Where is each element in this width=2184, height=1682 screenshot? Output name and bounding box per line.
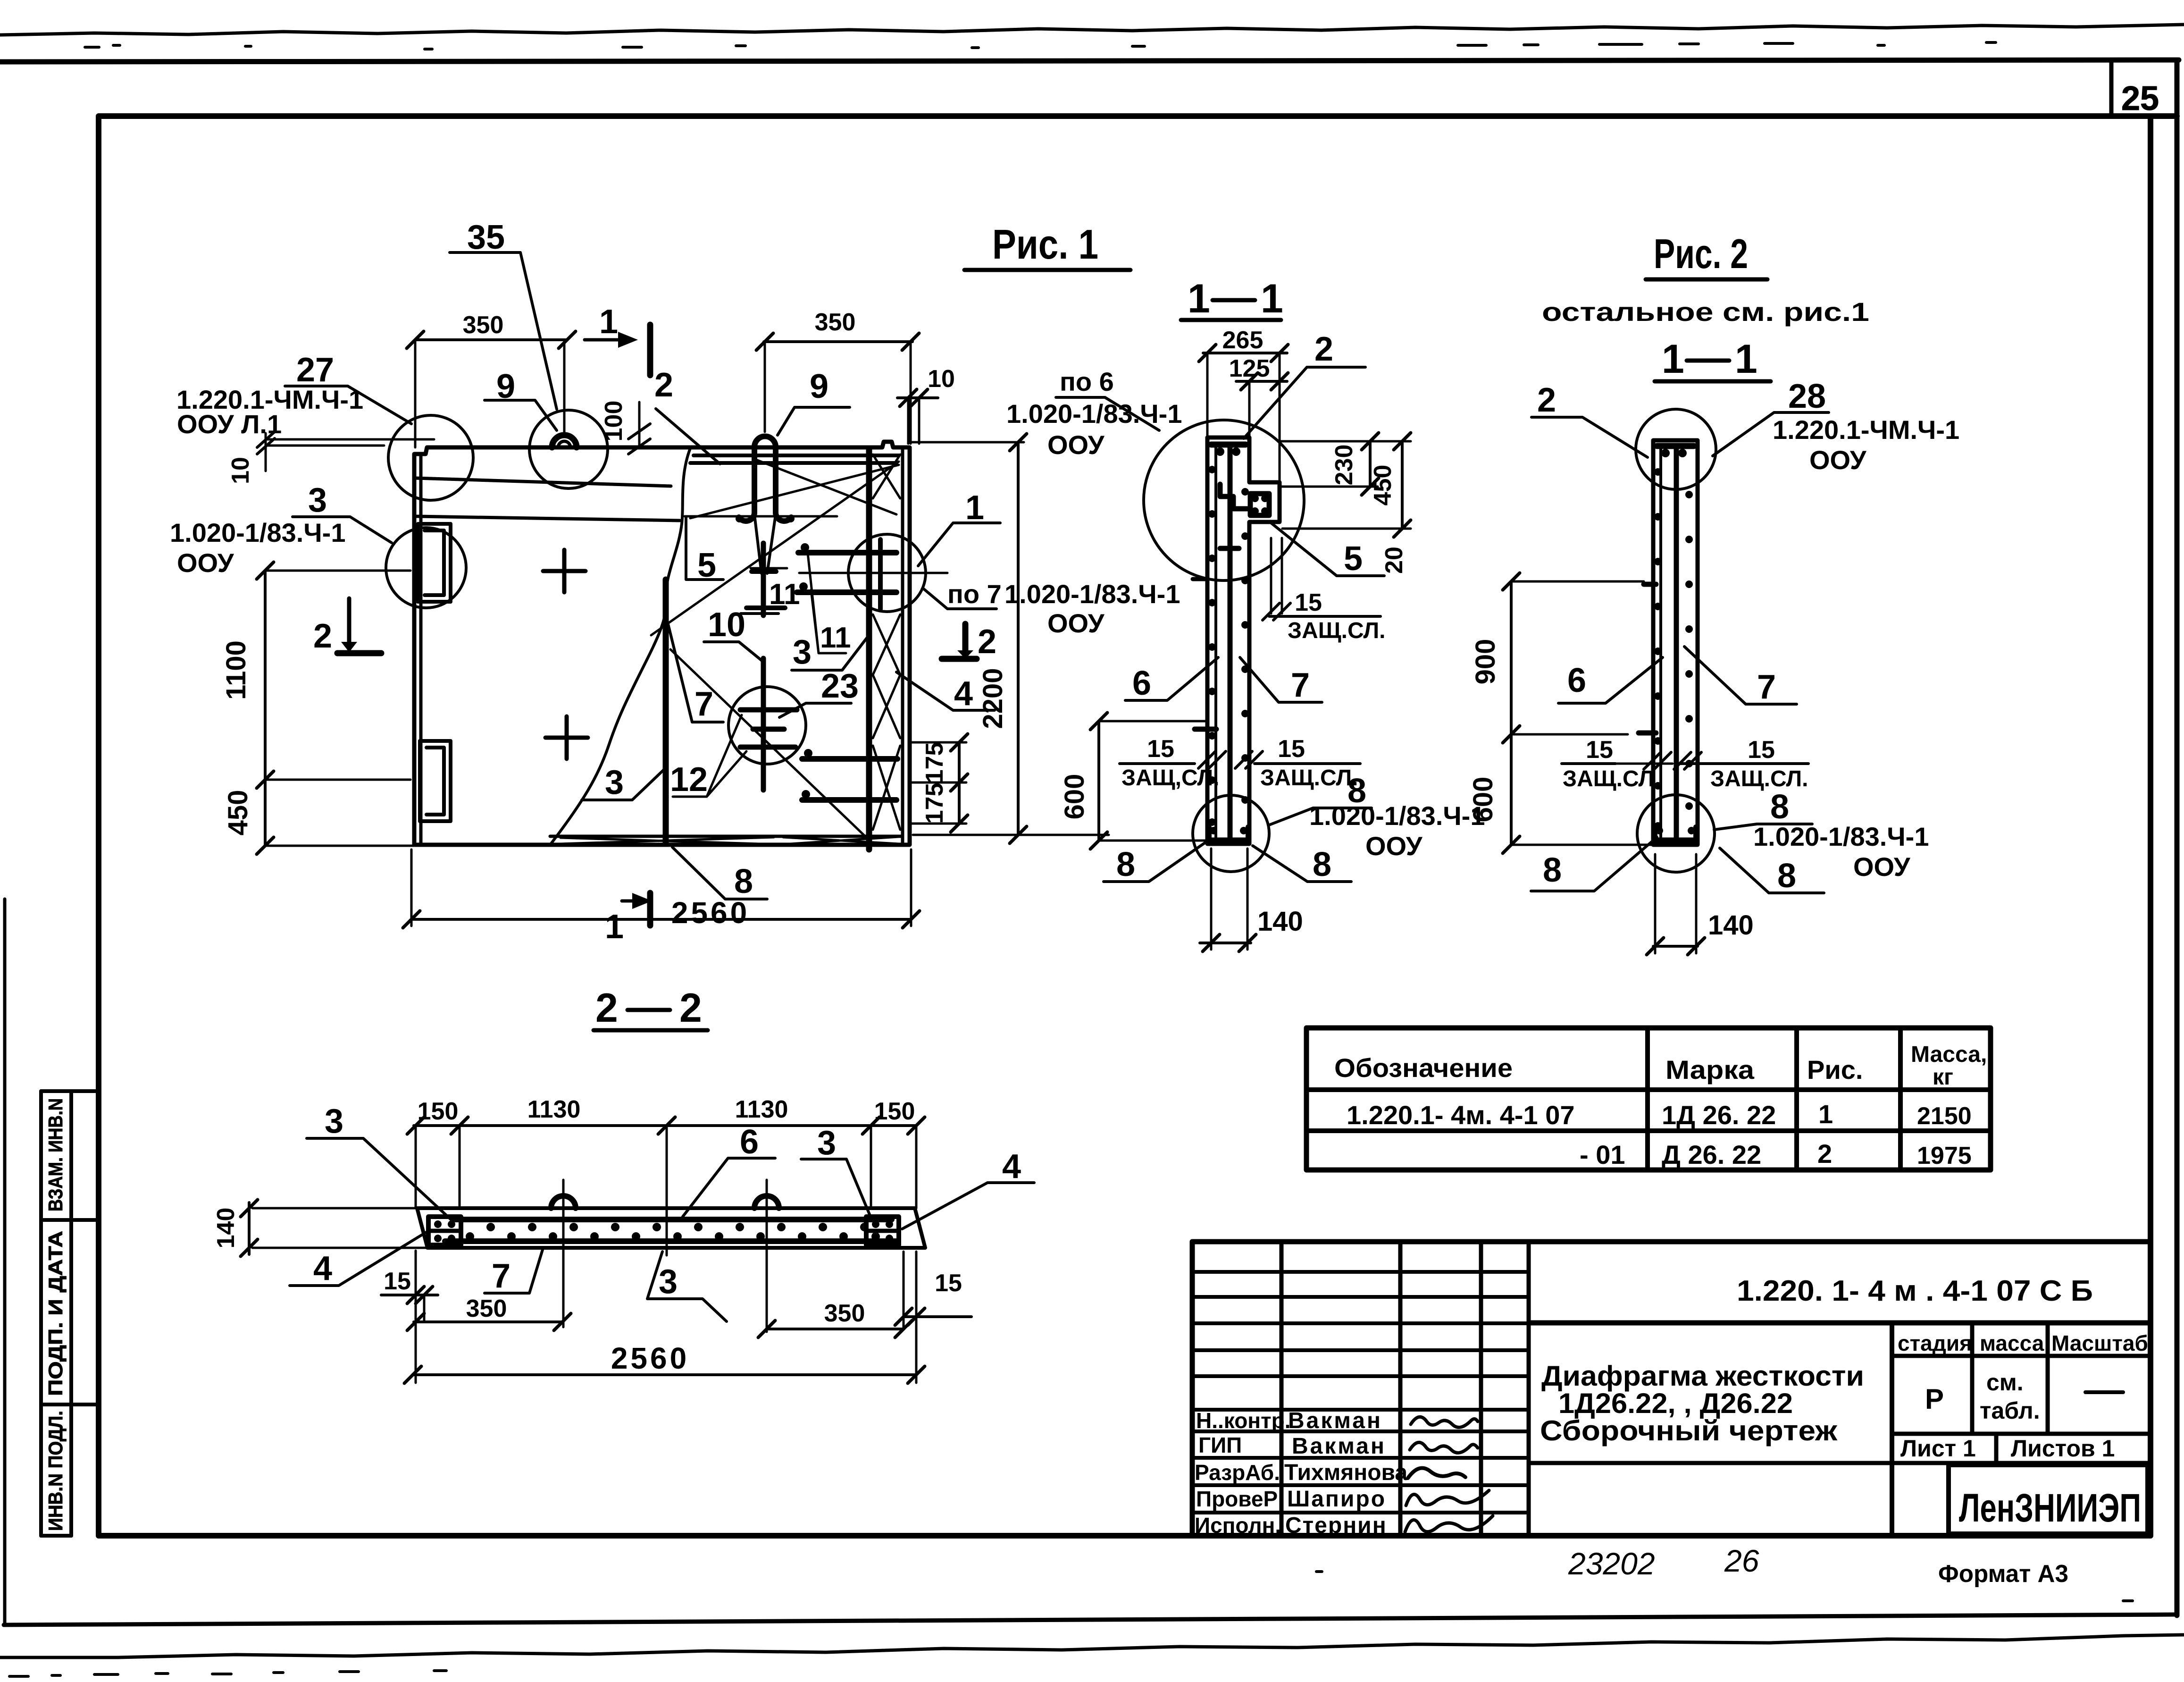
outer bottom line bbox=[4, 1615, 2177, 1625]
svg-text:8: 8 bbox=[1313, 846, 1331, 883]
dim 350 right sec22 bbox=[767, 1328, 904, 1330]
svg-text:1: 1 bbox=[1662, 336, 1684, 382]
svg-text:ООУ: ООУ bbox=[1809, 445, 1867, 475]
top horizontal rule bbox=[0, 60, 2179, 62]
svg-text:350: 350 bbox=[463, 311, 504, 339]
svg-text:350: 350 bbox=[815, 309, 856, 336]
top dim line 150 1130 1130 150 bbox=[414, 1124, 916, 1127]
detail circle loop bbox=[529, 410, 608, 488]
right channel box bbox=[866, 1217, 899, 1245]
svg-text:Рис. 2: Рис. 2 bbox=[1654, 230, 1748, 277]
dim 2560 sec22 bbox=[413, 1373, 916, 1376]
step bar box (pos.5) bbox=[1250, 494, 1269, 515]
svg-text:Масштаб: Масштаб bbox=[2051, 1331, 2148, 1355]
scan dash artifacts bottom bbox=[9, 1572, 2133, 1676]
V lines from loop to bar bbox=[754, 514, 776, 573]
svg-text:140: 140 bbox=[1257, 906, 1303, 937]
svg-text:2: 2 bbox=[595, 985, 618, 1031]
svg-text:Исполн.: Исполн. bbox=[1195, 1513, 1281, 1538]
svg-text:см.: см. bbox=[1986, 1369, 2024, 1396]
cage bold line bbox=[1228, 446, 1233, 840]
left part verticals bbox=[1281, 1242, 1529, 1536]
svg-text:15: 15 bbox=[1748, 736, 1775, 764]
signature squiggle row3 bbox=[1408, 1468, 1465, 1478]
svg-text:15: 15 bbox=[1147, 735, 1174, 763]
svg-text:Обозначение: Обозначение bbox=[1334, 1053, 1513, 1083]
svg-text:11: 11 bbox=[769, 578, 800, 611]
cage thin line bbox=[1214, 444, 1217, 839]
svg-text:8: 8 bbox=[1777, 857, 1796, 895]
bottom band diagonals bbox=[561, 837, 899, 844]
panel inner bottom line bbox=[550, 835, 902, 838]
svg-text:ЗАЩ.СЛ.: ЗАЩ.СЛ. bbox=[1563, 766, 1660, 791]
svg-text:15: 15 bbox=[384, 1268, 411, 1295]
cage dots left bbox=[1654, 468, 1662, 830]
scan dash artifacts top bbox=[85, 42, 1996, 49]
detail circle bottom fig2 bbox=[1637, 795, 1715, 872]
svg-text:ООУ: ООУ bbox=[1853, 852, 1911, 882]
svg-text:Н..контр.: Н..контр. bbox=[1196, 1408, 1291, 1433]
mesh dots row upper bbox=[486, 1223, 869, 1231]
svg-text:2: 2 bbox=[313, 617, 332, 655]
stub left face mid fig2 bbox=[1639, 731, 1656, 736]
dim 450 bbox=[1401, 441, 1404, 529]
section mark 2 right bbox=[962, 624, 969, 650]
svg-text:3: 3 bbox=[793, 633, 812, 671]
signature squiggle row5 bbox=[1405, 1516, 1493, 1532]
doc number row line bbox=[1529, 1320, 2151, 1326]
bottom angle details bbox=[1209, 827, 1248, 841]
dim 230 bbox=[1369, 441, 1372, 487]
svg-text:1.020-1/83.Ч-1: 1.020-1/83.Ч-1 bbox=[1753, 822, 1929, 851]
dim 140 bbox=[1200, 942, 1251, 944]
svg-text:100: 100 bbox=[600, 401, 628, 442]
svg-text:ПОДП. И ДАТА: ПОДП. И ДАТА bbox=[44, 1231, 67, 1396]
mesh top chord bbox=[454, 1217, 892, 1222]
top bold bar bbox=[1211, 442, 1246, 448]
loop 2 side view bbox=[754, 1196, 779, 1208]
section mark 1 bottom bbox=[647, 893, 653, 925]
svg-text:6: 6 bbox=[1132, 664, 1151, 702]
mesh dots row lower bbox=[466, 1232, 880, 1241]
svg-text:140: 140 bbox=[212, 1208, 240, 1249]
svg-text:РазрАб.: РазрАб. bbox=[1195, 1460, 1280, 1485]
svg-text:1: 1 bbox=[1188, 276, 1210, 321]
svg-text:350: 350 bbox=[824, 1300, 865, 1327]
values row bottom line bbox=[1892, 1432, 2151, 1436]
left outer vertical bbox=[3, 899, 7, 1625]
mid extension line bbox=[666, 1126, 668, 1255]
dim 1100 450 left bbox=[264, 571, 267, 846]
svg-text:3: 3 bbox=[817, 1124, 836, 1162]
svg-text:ООУ: ООУ bbox=[1365, 831, 1423, 861]
svg-text:3: 3 bbox=[308, 481, 327, 519]
top band diagonals right bbox=[690, 460, 899, 518]
bottom angle details fig2 bbox=[1655, 827, 1696, 841]
svg-text:2200: 2200 bbox=[978, 668, 1008, 729]
break line bbox=[550, 448, 690, 845]
svg-text:ЗАЩ.СЛ.: ЗАЩ.СЛ. bbox=[1710, 766, 1808, 791]
rebar bar lower fourth bbox=[802, 797, 896, 803]
cage dots left bbox=[1208, 466, 1216, 826]
stub left face mid bbox=[1195, 727, 1216, 732]
bold bar vertical left (pos.7) bbox=[663, 580, 669, 843]
signature squiggle row1 bbox=[1411, 1417, 1478, 1427]
svg-text:ЗАЩ,СЛ.: ЗАЩ,СЛ. bbox=[1121, 765, 1219, 791]
svg-text:4: 4 bbox=[1002, 1148, 1021, 1186]
svg-text:10: 10 bbox=[928, 365, 955, 393]
svg-text:ПровеР: ПровеР bbox=[1196, 1487, 1278, 1511]
svg-text:2: 2 bbox=[978, 623, 996, 661]
svg-text:10: 10 bbox=[227, 457, 254, 484]
svg-text:3: 3 bbox=[325, 1102, 343, 1140]
svg-text:по 7: по 7 bbox=[947, 579, 1002, 609]
svg-text:7: 7 bbox=[1757, 668, 1776, 706]
svg-text:табл.: табл. bbox=[1980, 1397, 2040, 1424]
detail circle top bbox=[1144, 420, 1304, 580]
svg-text:1130: 1130 bbox=[735, 1096, 788, 1123]
svg-text:15: 15 bbox=[1295, 589, 1322, 616]
svg-text:15: 15 bbox=[1586, 736, 1613, 764]
LenZNIIEP logo box bbox=[1949, 1465, 2148, 1534]
svg-text:1.220.1- 4м. 4-1 07: 1.220.1- 4м. 4-1 07 bbox=[1347, 1100, 1575, 1130]
svg-text:ИНВ.N ПОДЛ.: ИНВ.N ПОДЛ. bbox=[44, 1411, 67, 1531]
svg-text:1: 1 bbox=[599, 303, 618, 341]
top band line A left bbox=[415, 478, 671, 486]
loop vertical extension lines bbox=[563, 1180, 767, 1332]
svg-text:35: 35 bbox=[467, 219, 505, 256]
rebar bar 11 top bbox=[798, 550, 896, 555]
svg-text:450: 450 bbox=[223, 790, 253, 836]
svg-text:Сборочный чертеж: Сборочный чертеж bbox=[1540, 1415, 1838, 1447]
left sidebar boxes bbox=[41, 1091, 99, 1536]
svg-text:Рис. 1: Рис. 1 bbox=[992, 221, 1098, 268]
bold bar vertical right (pos.4 edge) bbox=[866, 449, 872, 849]
stub left face upper bbox=[1193, 577, 1207, 581]
svg-text:15: 15 bbox=[1278, 735, 1305, 763]
svg-text:ЗАЩ.СЛ.: ЗАЩ.СЛ. bbox=[1260, 765, 1358, 791]
detail circle mid rebar bbox=[728, 687, 806, 764]
detail circle bottom bbox=[1193, 795, 1269, 872]
svg-text:2: 2 bbox=[1537, 381, 1556, 419]
dim 350 left bbox=[415, 338, 567, 341]
torn paper edge bottom bbox=[0, 1635, 2184, 1657]
svg-text:5: 5 bbox=[1344, 540, 1363, 578]
list row divider bbox=[1994, 1434, 1999, 1463]
cage dots right bbox=[1685, 491, 1693, 810]
svg-text:6: 6 bbox=[740, 1123, 759, 1161]
upper cutout left bbox=[418, 524, 451, 602]
svg-text:25: 25 bbox=[2121, 80, 2159, 118]
svg-text:27: 27 bbox=[296, 351, 334, 389]
svg-text:1.020-1/83.Ч-1: 1.020-1/83.Ч-1 bbox=[170, 518, 345, 547]
panel inner left edge line bbox=[419, 454, 423, 844]
upper mid bar detail (pos.5/11) bbox=[761, 543, 766, 615]
dim 900 600 bbox=[1510, 581, 1513, 845]
svg-text:Рис.: Рис. bbox=[1807, 1055, 1863, 1085]
svg-text:1: 1 bbox=[1818, 1099, 1833, 1129]
svg-text:8: 8 bbox=[1543, 851, 1562, 889]
svg-text:8: 8 bbox=[1116, 846, 1135, 883]
svg-text:Вакман: Вакман bbox=[1288, 1408, 1382, 1433]
thin line through right circle bbox=[799, 572, 947, 574]
svg-text:26: 26 bbox=[1724, 1543, 1759, 1578]
svg-text:Масса,: Масса, bbox=[1911, 1042, 1987, 1067]
svg-text:23: 23 bbox=[821, 667, 859, 705]
svg-text:23202: 23202 bbox=[1568, 1546, 1655, 1581]
loop hook line bbox=[685, 515, 837, 518]
svg-text:Лист 1: Лист 1 bbox=[1900, 1435, 1976, 1462]
parts table frame bbox=[1306, 1028, 1991, 1170]
svg-text:175: 175 bbox=[921, 783, 948, 824]
svg-text:600: 600 bbox=[1059, 774, 1090, 820]
cage thin line bbox=[1659, 446, 1662, 840]
slab outline bbox=[417, 1208, 925, 1248]
svg-text:8: 8 bbox=[734, 863, 753, 900]
dim 140 rotated sec22 bbox=[248, 1203, 251, 1254]
dim 2560 fig1 bbox=[411, 918, 911, 921]
step rebar Z bbox=[1220, 484, 1249, 509]
svg-text:1: 1 bbox=[1735, 336, 1757, 382]
title block outer frame bbox=[1192, 1242, 2151, 1536]
svg-text:600: 600 bbox=[1468, 777, 1498, 823]
svg-text:1.220. 1- 4 м . 4-1 07: 1.220. 1- 4 м . 4-1 07 С Б bbox=[1737, 1275, 2093, 1307]
panel outline bbox=[414, 442, 910, 845]
top band line B left bbox=[415, 516, 680, 521]
detail circle top fig2 bbox=[1636, 409, 1716, 489]
svg-text:ООУ: ООУ bbox=[1047, 608, 1105, 638]
bold bar vertical right short bbox=[878, 539, 883, 609]
dim 600 bbox=[1097, 721, 1100, 841]
svg-text:масса: масса bbox=[1980, 1331, 2044, 1355]
svg-text:стадия: стадия bbox=[1898, 1331, 1972, 1355]
svg-text:ЛенЗНИИЭП: ЛенЗНИИЭП bbox=[1959, 1486, 2141, 1530]
svg-text:1.020-1/83.Ч-1: 1.020-1/83.Ч-1 bbox=[1004, 579, 1180, 609]
svg-text:кг: кг bbox=[1933, 1065, 1953, 1090]
svg-text:1: 1 bbox=[1261, 276, 1283, 321]
top bold bar bbox=[1657, 443, 1694, 449]
left part row lines bbox=[1192, 1272, 1529, 1513]
dim 2200 bbox=[1017, 442, 1020, 835]
svg-text:ВЗАМ. ИНВ.N: ВЗАМ. ИНВ.N bbox=[44, 1098, 67, 1211]
svg-text:остальное см. рис.1: остальное см. рис.1 bbox=[1542, 297, 1869, 327]
stub left face upper fig2 bbox=[1644, 582, 1656, 587]
svg-text:10: 10 bbox=[708, 606, 745, 644]
svg-text:20: 20 bbox=[1381, 547, 1408, 574]
svg-text:3: 3 bbox=[659, 1263, 678, 1301]
detail circle right edge bbox=[848, 534, 926, 612]
svg-text:12: 12 bbox=[670, 761, 708, 799]
extension lines above wall bbox=[1207, 353, 1280, 482]
svg-text:9: 9 bbox=[810, 368, 828, 405]
svg-text:150: 150 bbox=[418, 1098, 459, 1125]
svg-text:1: 1 bbox=[965, 489, 984, 527]
cage bold line bbox=[1674, 446, 1679, 841]
svg-text:Вакман: Вакман bbox=[1292, 1434, 1386, 1459]
svg-text:1.220.1-ЧМ.Ч-1: 1.220.1-ЧМ.Ч-1 bbox=[1773, 415, 1959, 445]
stadia massa masshtab verticals bbox=[1890, 1323, 1894, 1536]
svg-text:2: 2 bbox=[679, 985, 702, 1031]
wall section outline bbox=[1207, 437, 1280, 844]
svg-text:11: 11 bbox=[820, 622, 851, 654]
svg-text:2: 2 bbox=[654, 366, 673, 404]
svg-text:4: 4 bbox=[954, 675, 973, 713]
svg-text:1.020-1/83.Ч-1: 1.020-1/83.Ч-1 bbox=[1309, 801, 1485, 831]
table row lines bbox=[1306, 1090, 1991, 1131]
svg-text:Р: Р bbox=[1925, 1383, 1944, 1415]
svg-text:2150: 2150 bbox=[1917, 1102, 1972, 1130]
svg-text:900: 900 bbox=[1470, 639, 1501, 685]
svg-text:ЗАЩ.СЛ.: ЗАЩ.СЛ. bbox=[1288, 618, 1385, 643]
left channel box bbox=[428, 1217, 461, 1245]
lifting loop end view bbox=[552, 435, 577, 447]
rebar bar lower third bbox=[802, 756, 897, 762]
svg-text:ГИП: ГИП bbox=[1198, 1433, 1242, 1457]
dim 350 left sec22 bbox=[414, 1320, 562, 1323]
svg-text:1130: 1130 bbox=[527, 1096, 581, 1123]
X bracing right edge bbox=[873, 454, 900, 830]
dim 175 175 bbox=[958, 742, 961, 824]
svg-text:1.020-1/83.Ч-1: 1.020-1/83.Ч-1 bbox=[1006, 399, 1182, 429]
svg-text:Диафрагма жесткости: Диафрагма жесткости bbox=[1541, 1360, 1864, 1392]
lower cutout left bbox=[420, 741, 451, 821]
svg-text:2560: 2560 bbox=[611, 1341, 689, 1375]
svg-text:Формат А3: Формат А3 bbox=[1938, 1560, 2068, 1588]
svg-text:150: 150 bbox=[874, 1098, 915, 1125]
svg-text:Листов 1: Листов 1 bbox=[2011, 1435, 2115, 1462]
svg-text:Шапиро: Шапиро bbox=[1287, 1487, 1386, 1512]
svg-text:- 01: - 01 bbox=[1580, 1140, 1625, 1169]
svg-text:Д 26. 22: Д 26. 22 bbox=[1662, 1140, 1761, 1169]
page number box bbox=[2109, 63, 2114, 116]
right outer vertical bbox=[2175, 60, 2180, 1615]
svg-text:8: 8 bbox=[1770, 788, 1789, 826]
svg-text:Тихмянова: Тихмянова bbox=[1284, 1460, 1407, 1485]
dim 140 fig2 bbox=[1653, 945, 1698, 948]
dim 350 right bbox=[764, 340, 912, 343]
signature squiggle row2 bbox=[1410, 1442, 1478, 1453]
step bold stub bbox=[1220, 546, 1239, 551]
svg-text:230: 230 bbox=[1330, 445, 1358, 486]
svg-text:2: 2 bbox=[1314, 330, 1333, 368]
svg-text:1: 1 bbox=[605, 908, 624, 946]
wall section outline fig2 bbox=[1653, 440, 1698, 845]
svg-text:3: 3 bbox=[605, 764, 624, 801]
svg-text:175: 175 bbox=[921, 742, 948, 783]
svg-text:7: 7 bbox=[695, 685, 713, 723]
detail circle corner bbox=[388, 415, 473, 500]
svg-text:2560: 2560 bbox=[671, 896, 750, 930]
svg-text:по 6: по 6 bbox=[1060, 367, 1114, 396]
table column lines bbox=[1648, 1028, 1900, 1170]
svg-text:6: 6 bbox=[1567, 662, 1586, 699]
loop 1 side view bbox=[551, 1196, 576, 1208]
corner extension double line bbox=[266, 439, 434, 446]
svg-text:Стернин: Стернин bbox=[1285, 1513, 1387, 1538]
svg-text:1Д26.22, , Д26.22: 1Д26.22, , Д26.22 bbox=[1558, 1388, 1793, 1419]
svg-text:265: 265 bbox=[1222, 327, 1264, 354]
svg-text:1975: 1975 bbox=[1917, 1142, 1972, 1169]
central bar detail (pos.10/12/23) bbox=[761, 658, 766, 790]
svg-text:7: 7 bbox=[1291, 666, 1310, 704]
svg-text:450: 450 bbox=[1369, 465, 1397, 506]
torn paper edge top bbox=[0, 25, 2184, 35]
svg-text:ООУ: ООУ bbox=[1047, 430, 1105, 460]
long construction diagonals bbox=[651, 462, 899, 839]
detail circle left cutout bbox=[386, 528, 466, 608]
panel inner right edge line bbox=[901, 448, 904, 844]
svg-text:15: 15 bbox=[935, 1270, 962, 1297]
cage dots right bbox=[1241, 488, 1249, 804]
svg-text:350: 350 bbox=[466, 1295, 507, 1322]
name cell bottom line bbox=[1529, 1461, 2151, 1465]
svg-text:1100: 1100 bbox=[221, 640, 251, 700]
rebar bar 11 second bbox=[797, 589, 896, 595]
cross mark lower bbox=[545, 716, 588, 759]
svg-text:4: 4 bbox=[313, 1250, 332, 1287]
svg-text:140: 140 bbox=[1708, 910, 1754, 941]
svg-text:125: 125 bbox=[1229, 355, 1270, 382]
signature squiggle row4 bbox=[1406, 1490, 1489, 1505]
top band double line right bbox=[690, 455, 899, 463]
mesh bottom chord bbox=[445, 1238, 897, 1244]
svg-text:2: 2 bbox=[1817, 1139, 1832, 1169]
svg-text:Марка: Марка bbox=[1665, 1055, 1755, 1085]
svg-text:ООУ: ООУ bbox=[177, 548, 234, 578]
svg-text:28: 28 bbox=[1788, 378, 1826, 415]
svg-text:7: 7 bbox=[492, 1257, 510, 1295]
header row line bbox=[1892, 1354, 2151, 1358]
svg-text:1Д 26. 22: 1Д 26. 22 bbox=[1662, 1100, 1776, 1130]
cross mark upper bbox=[543, 550, 586, 592]
lifting loop U bbox=[739, 437, 791, 521]
